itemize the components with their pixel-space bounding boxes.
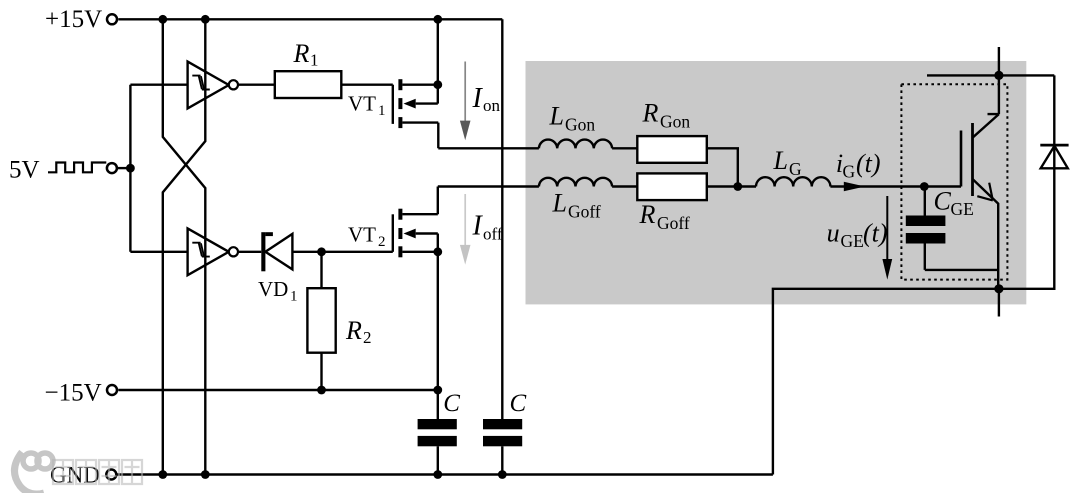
node dot gate-resistor junction [733,182,742,191]
node dot GND-B [201,470,210,479]
resistor RGon [637,136,707,163]
capacitor C2 [483,419,522,475]
-15V label [45,380,102,407]
wire R1 to VT1 gate [341,83,393,85]
resistor RGoff [637,173,707,200]
LGon label [549,102,596,135]
svg-text:VT: VT [348,222,376,246]
diode VD1 [261,232,292,271]
diode VD2 freewheel [1040,145,1068,168]
svg-text:L: L [773,146,788,175]
svg-text:G: G [843,162,856,182]
node dot rail-C [433,15,442,24]
svg-text:C: C [510,390,527,417]
svg-text:off: off [483,225,503,244]
capacitor C1 [418,419,457,475]
arrow iG [844,182,865,191]
svg-text:on: on [483,96,501,115]
GND rail wire [117,473,773,475]
arrow Ion [460,62,471,141]
resistor R1 [275,71,342,98]
C1 label [443,390,460,417]
svg-text:Gon: Gon [660,112,690,132]
R2 label [345,316,372,347]
svg-text:C: C [443,390,460,417]
svg-text:Goff: Goff [657,213,690,233]
svg-text:−15V: −15V [45,380,102,407]
wire VD1 to VT2 gate [292,251,392,253]
LGoff label [552,188,601,221]
VT1 label [348,91,386,119]
dotted IGBT box [901,84,1007,279]
svg-text:G: G [789,159,802,179]
wire R2 bottom lead [320,353,322,390]
-15V terminal [107,385,117,395]
svg-text:Goff: Goff [568,201,601,221]
IGBT U3 [924,47,999,289]
svg-text:2: 2 [378,234,386,250]
wire RGoff to node [707,185,738,187]
arrow Ioff [460,194,471,265]
svg-text:Gon: Gon [565,115,595,135]
LG label [773,146,803,179]
wire emitter stub [998,289,1000,317]
wire VT2 drain to row2 [438,185,539,187]
gray highlight region [526,61,1027,304]
wire +15V rail drop right [501,19,503,419]
svg-text:I: I [472,83,484,114]
svg-text:1: 1 [290,289,298,305]
uGE(t) label [827,218,888,251]
wire to inverter U1 input [130,83,187,85]
node dot gate [920,182,929,191]
wire VT2 source down [437,252,439,419]
inductor LG [756,177,830,186]
inductor LGon [539,140,612,149]
svg-text:VT: VT [348,91,376,115]
transistor VT2 [393,187,438,258]
wire collector bus [927,74,1054,76]
watermark logo [14,452,53,493]
node dot rail-B [201,15,210,24]
wire 5V input [118,167,131,169]
wire RGon to node [707,148,738,186]
svg-text:C: C [934,187,952,216]
node dot GND-A [158,470,167,479]
node 5V input dot [126,164,135,173]
svg-text:5V: 5V [9,156,40,183]
VD1 label [258,277,298,305]
VT2 label [348,222,386,250]
node dot collector [994,71,1003,80]
+15V terminal [107,14,117,24]
CGE label [934,187,974,220]
node dot R2 bottom [317,386,326,395]
svg-text:VD: VD [258,277,288,301]
inductor LGoff [539,178,612,187]
wire R2 top lead [320,252,322,288]
GND terminal [106,470,116,480]
Ioff label [472,211,503,244]
5V terminal [107,163,117,173]
wire VT1 out to gray box row1 [438,147,539,149]
svg-text:L: L [549,102,564,131]
wire supply cross line A [163,19,206,474]
svg-text:R: R [642,99,659,128]
arrow uGE [882,196,892,280]
wire node to LG [738,185,756,187]
wire +15V to VT1 [437,19,439,84]
RGoff label [639,200,690,233]
node dot -15V end [433,386,442,395]
svg-text:R: R [345,316,362,345]
C2 label [510,390,527,417]
transistor VT1 [393,79,439,148]
svg-text:R: R [639,200,656,229]
node dot rail-A [158,15,167,24]
wire LG to gate node [830,185,924,187]
RGon label [642,99,691,132]
wire to inverter U2 input [130,251,187,253]
svg-text:+15V: +15V [45,6,102,33]
svg-text:GE: GE [951,199,974,219]
wire LGoff to RGoff [612,185,637,187]
node dot emitter [994,284,1003,293]
svg-text:1: 1 [310,51,319,70]
svg-text:(t): (t) [856,149,881,178]
wire input split vertical [129,85,131,252]
+15V rail wire [118,18,502,20]
5V label [9,156,40,183]
wire U2 output to VD1 [238,251,261,253]
node dot GND-C1 [433,470,442,479]
svg-text:(t): (t) [863,218,888,247]
svg-text:u: u [827,218,840,247]
svg-text:L: L [552,188,567,217]
wire LGon to RGon [612,147,637,149]
inverter U1 [188,62,238,109]
node dot GND-C2 [498,470,507,479]
R1 label [293,39,319,70]
GND label [50,463,100,488]
node dot VT1 source [433,80,442,89]
inverter U2 [188,228,238,275]
svg-text:R: R [293,39,310,68]
svg-text:I: I [472,211,484,242]
watermark text [53,460,142,484]
wire freewheel branch [773,75,1054,474]
node dot VT2 source [433,247,442,256]
square wave symbol [48,163,106,173]
-15V rail wire [118,389,438,391]
capacitor CGE [906,187,999,270]
svg-text:2: 2 [363,328,372,347]
Ion label [472,83,501,115]
resistor R2 [307,288,335,353]
wire supply cross line B [163,19,206,474]
+15V label [45,6,102,33]
node dot R2 top [317,247,326,256]
wire U1 output to R1 [238,83,275,85]
iG(t) label [836,149,881,182]
svg-text:1: 1 [378,103,386,119]
svg-text:GE: GE [841,231,864,251]
